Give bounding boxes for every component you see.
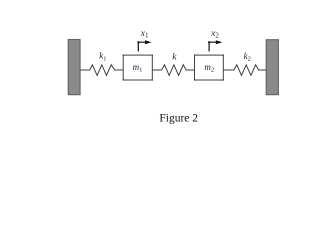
mass m2 box bbox=[195, 55, 224, 80]
right wall bbox=[266, 40, 278, 95]
left wall bbox=[68, 40, 80, 95]
mass m1 box bbox=[123, 55, 152, 80]
arrow x2 bbox=[209, 42, 217, 51]
svg-text:Figure 2: Figure 2 bbox=[159, 112, 198, 124]
spring k2 bbox=[223, 65, 266, 76]
spring k (middle) bbox=[152, 65, 194, 76]
spring k1 bbox=[80, 65, 123, 76]
arrow x1 bbox=[138, 42, 146, 51]
